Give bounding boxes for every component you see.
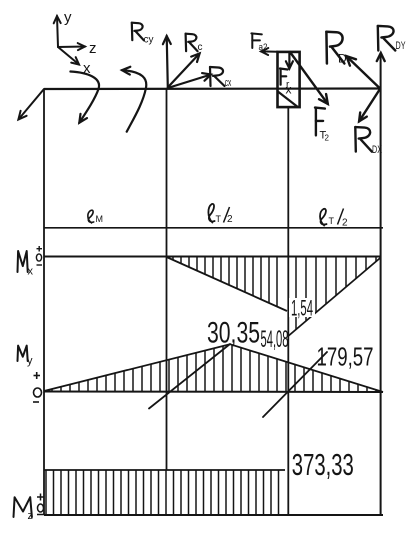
svg-text:54,08: 54,08	[261, 326, 289, 353]
svg-text:D: D	[338, 52, 347, 66]
svg-text:30,35: 30,35	[207, 317, 260, 350]
reaction arrow R_Dy head	[377, 53, 385, 61]
pulley inner diagonal	[278, 91, 298, 107]
M_y leader line left	[149, 344, 230, 409]
force arrow F_t2	[290, 52, 328, 104]
svg-text:2: 2	[342, 218, 348, 229]
svg-text:179,57: 179,57	[317, 342, 374, 372]
dimension label l_T/2 middle span	[208, 204, 214, 223]
coordinate axis z	[58, 43, 85, 50]
svg-text:z: z	[89, 40, 97, 57]
svg-text:x: x	[286, 83, 292, 97]
label R_D	[326, 32, 344, 64]
svg-text:c: c	[198, 42, 203, 53]
coordinate axis y	[54, 16, 61, 47]
coordinate axis x	[58, 47, 79, 65]
label F_T2	[315, 108, 325, 136]
svg-text:T: T	[216, 214, 222, 224]
reaction arrow R_cy	[163, 36, 171, 87]
M_x sign o	[36, 254, 41, 261]
reaction arrow R_D	[347, 56, 381, 88]
label M_x	[18, 251, 28, 272]
label R_Dy	[378, 26, 396, 51]
svg-text:2: 2	[227, 214, 233, 225]
dimension label l_T/2 right span	[320, 209, 326, 226]
M_z baseline	[44, 514, 383, 516]
M_y right slope	[230, 344, 383, 392]
M_z sign underline	[37, 514, 45, 516]
value label 1,54 background	[289, 298, 315, 317]
label R_Dx	[355, 127, 372, 152]
label R_c	[186, 34, 198, 52]
right border vertical / R_Dy shaft	[380, 53, 382, 515]
M_x baseline	[44, 256, 381, 258]
M_y sign plus	[34, 372, 41, 379]
M_y sign o	[34, 388, 42, 397]
label M_y	[18, 346, 28, 361]
svg-text:cx: cx	[225, 77, 232, 89]
M_y leader line right	[263, 352, 327, 417]
svg-text:a2: a2	[259, 42, 268, 52]
reaction arrow R_Dx	[359, 89, 380, 122]
section line C	[166, 89, 168, 470]
svg-text:M: M	[96, 214, 104, 224]
force arrow F_r2 inside pulley	[286, 53, 293, 69]
svg-text:DY: DY	[396, 40, 406, 52]
svg-text:y: y	[27, 355, 33, 367]
left border vertical	[43, 89, 45, 515]
force arrow F_a2	[261, 48, 278, 55]
label F_a2	[251, 33, 261, 48]
svg-text:y: y	[64, 9, 72, 26]
label R_cx	[210, 67, 225, 86]
svg-text:z: z	[28, 510, 34, 522]
svg-text:DX: DX	[372, 144, 382, 156]
M_x left hatching	[173, 257, 277, 307]
label F_r2	[280, 69, 288, 85]
section line at pulley	[287, 107, 289, 515]
svg-text:2: 2	[325, 134, 330, 143]
M_z hatching	[46, 470, 279, 515]
M_z rectangle top edge	[44, 469, 285, 471]
M_x sign minus	[37, 264, 43, 266]
svg-text:cy: cy	[144, 35, 154, 46]
reaction arrow R_cx	[168, 73, 211, 88]
M_z sign o	[38, 504, 44, 512]
label R_cy	[132, 23, 144, 41]
M_y sign minus	[33, 401, 39, 403]
svg-text:T: T	[329, 216, 335, 226]
M_x sign plus	[37, 246, 43, 252]
reaction arrow R_c	[168, 53, 200, 87]
svg-text:373,33: 373,33	[292, 447, 354, 482]
dimension line	[44, 227, 383, 229]
M_y hatching	[52, 345, 376, 392]
M_x right hatching	[296, 257, 376, 330]
curved torque arrow left	[70, 72, 99, 123]
M_y baseline	[44, 391, 383, 394]
M_x left slope	[167, 257, 288, 311]
svg-text:1,54: 1,54	[291, 296, 313, 321]
M_x right hypotenuse	[288, 258, 380, 337]
left end reaction arrow	[18, 89, 44, 120]
dimension label l_M	[88, 210, 94, 223]
shaft beam line	[44, 87, 381, 90]
label M_z	[14, 497, 32, 517]
curved torque arrow right	[122, 67, 146, 132]
M_z sign plus	[37, 494, 44, 501]
svg-text:x: x	[28, 266, 34, 278]
M_y left slope	[44, 344, 230, 391]
pulley rectangle	[278, 52, 300, 107]
